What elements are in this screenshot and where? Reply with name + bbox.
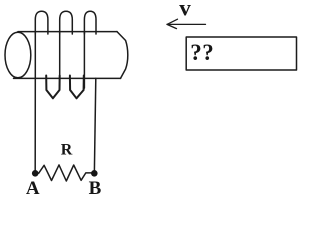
svg-text:v: v [179,0,191,21]
svg-text:R: R [61,142,73,159]
cylinder right end [117,32,128,79]
coil turn 2 front wire [59,32,61,88]
coil turn 3 front wire [83,32,85,88]
coil turn 1 top arch [35,11,48,34]
wire lead B [94,78,95,171]
node A dot [32,170,39,177]
wire lead A [34,78,36,171]
magnet box [186,37,296,70]
velocity arrow shaft [167,23,206,25]
coil bottom loop 2 [70,76,84,99]
cylinder bottom edge [14,77,121,79]
svg-text:B: B [89,178,102,199]
svg-text:??: ?? [190,40,214,65]
coil turn 3 top arch [84,11,96,34]
svg-text:A: A [26,178,40,199]
resistor R1 zigzag [39,165,91,181]
cylinder left cap ellipse [5,32,31,78]
node B dot [91,170,98,177]
velocity arrow head [167,19,178,28]
coil bottom loop 1 [46,76,60,99]
coil turn 1 front wire [34,32,36,79]
cylinder top edge [18,31,117,33]
coil turn 2 top arch [60,11,73,34]
